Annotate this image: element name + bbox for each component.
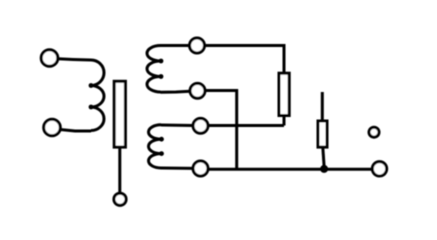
- terminal J2: [44, 119, 61, 136]
- wire L2 top to T1: [161, 44, 190, 47]
- wire T1 to R1 top: [205, 46, 285, 74]
- cusp dots L2: [159, 59, 164, 64]
- terminal T5: [372, 162, 386, 176]
- wire primary to J2: [60, 130, 91, 132]
- wire J1 to primary: [58, 59, 91, 60]
- junction dot R2-rail: [320, 165, 328, 173]
- terminal T1: [190, 38, 205, 53]
- unconnected pad: [369, 127, 379, 137]
- terminal T3: [193, 118, 208, 133]
- wire ground rail: [208, 168, 372, 171]
- wire shield to ground pin: [118, 147, 121, 192]
- terminal J1: [41, 50, 58, 67]
- wire L3 bottom to T4: [161, 167, 194, 170]
- wire R2 top stub: [321, 92, 324, 121]
- wire T2 right then down to rail: [205, 91, 237, 170]
- wire L3 top to T3: [161, 124, 193, 128]
- wire T3 to R1 bottom: [209, 124, 284, 127]
- resistor R2: [318, 121, 327, 147]
- inductor L1 primary winding: [91, 60, 104, 131]
- terminal T2: [190, 83, 205, 98]
- resistor R1: [279, 73, 289, 115]
- wire R2 bottom lead: [323, 147, 325, 169]
- wire R1 bottom lead: [283, 116, 286, 126]
- electrostatic shield bar: [114, 81, 125, 147]
- inductor L3 secondary winding bottom: [149, 125, 162, 168]
- inductor L2 secondary winding top: [147, 46, 161, 93]
- terminal T4: [193, 161, 208, 176]
- shield ground pin: [114, 193, 126, 205]
- cusp dots L1: [89, 83, 94, 88]
- wire L2 bottom to T2: [161, 91, 191, 92]
- cusp dots L3: [159, 137, 164, 142]
